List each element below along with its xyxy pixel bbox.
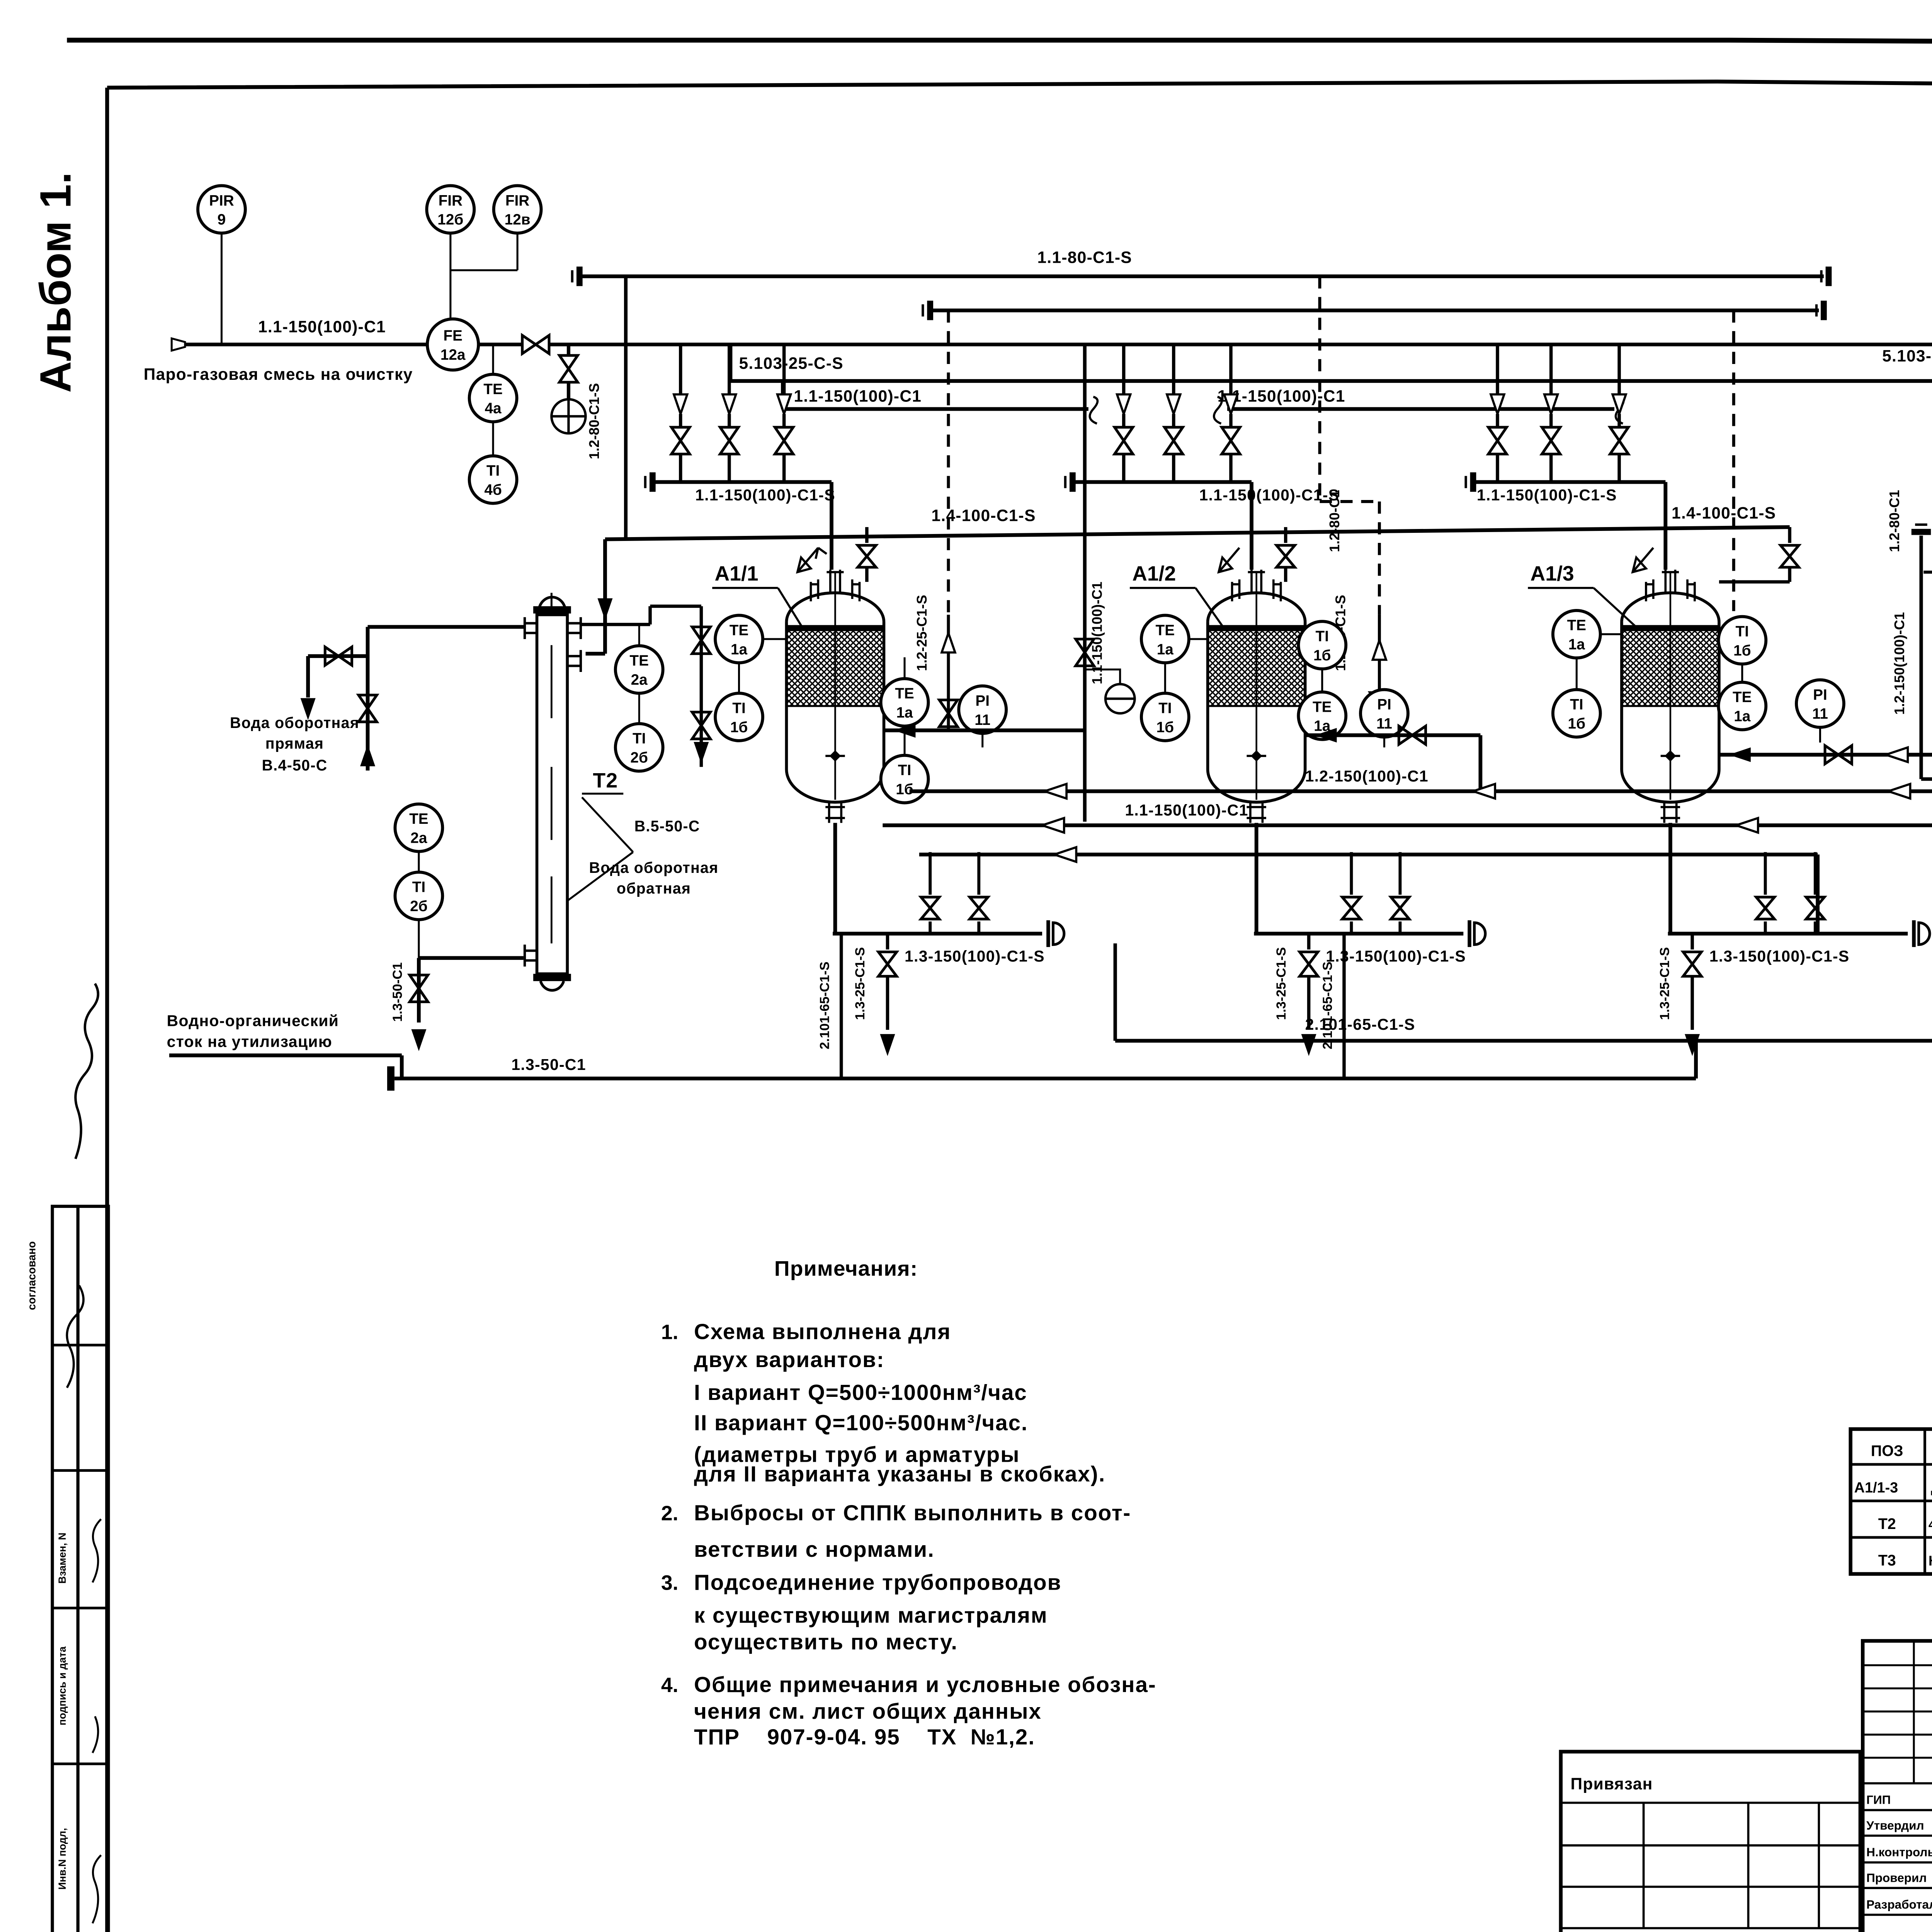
wire [784, 414, 785, 427]
svg-text:1.2-25-С1-S: 1.2-25-С1-S [914, 595, 930, 671]
svg-text:TE: TE [1733, 689, 1752, 706]
pipe (dashed) [1379, 502, 1380, 615]
svg-text:2.: 2. [661, 1502, 679, 1525]
wire [1351, 922, 1352, 934]
pipe 1.2-80-C1 riser (dashed) [1319, 276, 1320, 502]
valve [1277, 545, 1295, 567]
margin handwritten entry [92, 1519, 101, 1923]
svg-text:2.101-65-С1-S: 2.101-65-С1-S [818, 962, 832, 1049]
box Привязан [1561, 1752, 1860, 1932]
svg-text:Разработал: Разработал [1866, 1898, 1932, 1912]
svg-text:ветствии с нормами.: ветствии с нормами. [694, 1537, 935, 1562]
svg-text:400-ХКГ-1,6-М8-С/25Г-2-2-У-Н: 400-ХКГ-1,6-М8-С/25Г-2-2-У-Н [1929, 1517, 1932, 1532]
wire [1308, 978, 1310, 1030]
valve [1342, 897, 1361, 919]
svg-text:Привязан: Привязан [1571, 1775, 1653, 1793]
svg-text:А1/3: А1/3 [1531, 563, 1574, 585]
svg-text:9: 9 [218, 211, 226, 228]
svg-text:1.2-150(100)-С1: 1.2-150(100)-С1 [1891, 612, 1907, 715]
valve on riser x891 [1076, 639, 1094, 666]
wire [568, 382, 569, 399]
pipe drain header [1254, 933, 1463, 934]
wire vessel bottom drop [835, 823, 836, 934]
svg-text:сток на утилизацию: сток на утилизацию [167, 1032, 332, 1050]
instrument TI 1б [1718, 617, 1766, 664]
flow arrow [1886, 747, 1908, 762]
svg-text:2б: 2б [410, 898, 428, 915]
flow arrow [1167, 395, 1180, 414]
svg-text:Инв.N подл,: Инв.N подл, [56, 1828, 68, 1890]
wire [1230, 414, 1231, 427]
valve [970, 897, 988, 919]
svg-text:1.1-150(100)-С1-S: 1.1-150(100)-С1-S [1199, 486, 1340, 504]
svg-text:Водно-органический: Водно-органический [167, 1012, 339, 1030]
instrument TI 1б [881, 755, 929, 803]
pipe water-organic drain [169, 1055, 402, 1078]
wire [1285, 567, 1286, 582]
svg-text:II вариант Q=100÷500нм³/час.: II вариант Q=100÷500нм³/час. [694, 1411, 1028, 1435]
svg-text:обратная: обратная [617, 880, 691, 897]
instrument TE 2а [395, 804, 442, 852]
wire manifold drop [1551, 345, 1552, 395]
flow arrow [674, 395, 687, 414]
svg-text:TI: TI [1570, 696, 1583, 713]
svg-text:TE: TE [1156, 622, 1175, 639]
valve [1115, 427, 1133, 454]
wire [1230, 454, 1231, 482]
svg-text:А1/2: А1/2 [1132, 563, 1176, 585]
svg-text:1.2-80-С1: 1.2-80-С1 [1886, 490, 1902, 552]
pipe lower return header [919, 855, 1818, 934]
wire [887, 978, 888, 1030]
instrument TI 2б [395, 872, 442, 920]
instrument TI 1б [1298, 621, 1346, 669]
pipe end flange [1828, 267, 1830, 286]
valve [775, 427, 793, 454]
svg-text:Взамен, N: Взамен, N [56, 1532, 68, 1583]
pipe 1.1-150(100)-C1 feed (left) [185, 344, 429, 345]
valve [1756, 897, 1774, 919]
svg-text:Примечания:: Примечания: [774, 1257, 918, 1281]
capped end [1048, 920, 1049, 947]
svg-text:TE: TE [1313, 699, 1332, 715]
svg-text:TI: TI [1158, 700, 1172, 716]
instrument stems TE4a TI4b [493, 345, 493, 457]
svg-text:2а: 2а [410, 830, 427, 847]
svg-text:1.3-25-С1-S: 1.3-25-С1-S [1274, 947, 1289, 1020]
wire drop to T2 [586, 539, 605, 654]
node inlet reducer [172, 338, 185, 351]
flow arrow [1473, 784, 1495, 799]
stamp grid [1863, 1641, 1932, 1932]
pipe 1.2-25-C1-S regen drop [948, 615, 949, 730]
svg-text:Схема выполнена для: Схема выполнена для [694, 1320, 951, 1344]
relief valve SPPK A1/3 [1633, 548, 1653, 572]
instrument TE 2а [616, 646, 663, 693]
flow arrow [1054, 847, 1077, 862]
wire riser to header [1351, 852, 1352, 895]
pipe 1.1-150(100)-C1 (seg 1) [783, 381, 1088, 409]
wire vessel bottom drop [1670, 823, 1671, 934]
svg-text:Выбросы от СППК выполнить в со: Выбросы от СППК выполнить в соот- [694, 1501, 1131, 1526]
valve on water return 2 [692, 712, 710, 739]
svg-text:TE: TE [730, 622, 749, 639]
stems [1165, 639, 1207, 693]
svg-text:1б: 1б [1733, 642, 1751, 659]
svg-text:5.103-25-С-S: 5.103-25-С-S [739, 354, 844, 373]
flow arrow [881, 1035, 895, 1054]
valve [1806, 897, 1824, 919]
svg-text:11: 11 [1376, 715, 1392, 732]
leader line А1/1 [712, 588, 803, 629]
wire [729, 454, 730, 482]
wire drop from 1.4 header [1789, 527, 1790, 543]
instrument TE 1а [881, 679, 929, 726]
wire [866, 567, 867, 582]
wire [1719, 567, 1790, 582]
svg-text:12а: 12а [440, 347, 466, 363]
svg-text:TE: TE [1567, 617, 1587, 634]
svg-text:PI: PI [975, 693, 990, 709]
svg-text:1а: 1а [731, 641, 748, 658]
pipe T2 outlet jog [581, 606, 701, 624]
svg-text:TE: TE [895, 685, 914, 702]
flow arrow [1044, 784, 1066, 799]
svg-text:1.1-80-С1-S: 1.1-80-С1-S [1037, 248, 1132, 267]
svg-text:1.1-150(100)-С1: 1.1-150(100)-С1 [1125, 801, 1248, 819]
margin handwritten signature 2 [67, 1286, 83, 1388]
valve [1222, 427, 1240, 454]
valve [921, 897, 939, 919]
wire [1619, 414, 1620, 427]
border outer top line [67, 40, 1932, 45]
svg-text:I вариант Q=500÷1000нм³/час: I вариант Q=500÷1000нм³/час [694, 1381, 1027, 1405]
instrument PIR 9 [198, 185, 245, 233]
instrument FE 12а [427, 319, 478, 370]
wire drain drop [1692, 934, 1693, 949]
flow arrow [599, 599, 612, 618]
pipe header (second) [933, 310, 1819, 311]
pipe drain header [1668, 933, 1908, 934]
svg-text:1а: 1а [1734, 708, 1751, 725]
svg-text:1.4-100-С1-S: 1.4-100-С1-S [1672, 504, 1776, 522]
fitting (orifice circle) [1085, 670, 1134, 713]
flow arrow [1117, 395, 1131, 414]
svg-text:FIR: FIR [439, 192, 463, 209]
wire manifold drop [1619, 345, 1620, 395]
wire manifold drop [1230, 345, 1231, 395]
valve [1399, 726, 1425, 744]
svg-text:2а: 2а [631, 672, 648, 688]
margin block table [52, 1206, 108, 1932]
svg-text:TE: TE [409, 811, 429, 827]
svg-text:PI: PI [1813, 687, 1827, 703]
pipe manifold to A1/2 [1075, 482, 1252, 570]
wire [1692, 978, 1693, 1030]
stem PI11 [1820, 728, 1820, 743]
wire manifold drop [1173, 345, 1174, 395]
instrument TI 1б [1141, 693, 1189, 741]
relief valve SPPK A1/2 [1219, 548, 1240, 572]
svg-text:Т2: Т2 [1878, 1515, 1896, 1532]
valve [1165, 427, 1183, 454]
pipe A1/3 side outlet [1719, 755, 1932, 791]
svg-text:4а: 4а [485, 400, 502, 417]
svg-text:Вода оборотная: Вода оборотная [589, 859, 718, 876]
svg-text:2.101-65-С1-S: 2.101-65-С1-S [1320, 962, 1335, 1049]
svg-text:1а: 1а [1568, 636, 1585, 653]
svg-text:Альбом 1.: Альбом 1. [31, 172, 80, 393]
wire manifold drop [1497, 345, 1498, 395]
svg-text:TI: TI [1736, 623, 1749, 640]
heat exchanger T2 [525, 593, 581, 990]
valve [858, 545, 876, 567]
svg-text:для II варианта указаны в скоб: для II варианта указаны в скобках). [694, 1462, 1105, 1486]
pipe supply elbow [308, 627, 367, 656]
stems [1322, 670, 1323, 692]
svg-text:1.1-150(100)-С1-S: 1.1-150(100)-С1-S [695, 486, 835, 504]
pipe 1.2-150(100)-C1 return header [910, 791, 1932, 792]
svg-text:5.103-25-С-S: 5.103-25-С-S [1882, 347, 1932, 366]
absorber А1/1 [786, 570, 884, 823]
svg-text:2.101-65-С1-S: 2.101-65-С1-S [1305, 1015, 1415, 1033]
svg-text:осуществить по месту.: осуществить по месту. [694, 1630, 958, 1655]
svg-text:А1/1-3: А1/1-3 [1854, 1480, 1898, 1496]
pipe break [1616, 397, 1623, 423]
svg-text:11: 11 [1812, 706, 1828, 722]
svg-text:3.: 3. [661, 1571, 679, 1594]
pipe 1.2-150(100)-C1 riser [1921, 536, 1932, 779]
pipe regen drop [1379, 615, 1380, 735]
svg-text:1.3-50-С1: 1.3-50-С1 [511, 1056, 586, 1073]
valve [560, 355, 578, 382]
svg-text:2б: 2б [630, 750, 648, 766]
flow arrow [1544, 395, 1558, 414]
wire manifold drop [1123, 345, 1124, 395]
wire [1123, 454, 1124, 482]
wire drop from 1.4 header [866, 527, 867, 543]
svg-text:12в: 12в [505, 211, 531, 228]
svg-text:В.4-50-С: В.4-50-С [262, 757, 328, 774]
absorber А1/3 [1622, 570, 1719, 823]
svg-text:TI: TI [633, 730, 646, 747]
leader line T2 [567, 794, 633, 901]
svg-text:TI: TI [1316, 628, 1329, 645]
instrument stems TE2a TI2b [418, 852, 419, 958]
svg-text:1.4-100-С1-S: 1.4-100-С1-S [931, 506, 1036, 525]
instrument stem PIR9 [221, 234, 222, 345]
svg-text:TI: TI [898, 762, 911, 779]
valve on drain [410, 975, 428, 1002]
svg-text:прямая: прямая [265, 735, 324, 752]
flow arrow [1224, 395, 1238, 414]
stems [1577, 634, 1622, 689]
wire [978, 922, 980, 934]
valve on supply [359, 695, 377, 722]
equipment table text [1854, 1442, 1932, 1569]
instrument TE 1а [1141, 615, 1189, 663]
valve [1370, 693, 1388, 719]
instrument stems FIR12 [451, 234, 517, 320]
wire drain drop [1308, 934, 1310, 949]
svg-text:ПОЗ: ПОЗ [1871, 1442, 1903, 1459]
pipe break [1214, 397, 1222, 423]
svg-text:Н.контроль: Н.контроль [1866, 1845, 1932, 1859]
pipe 1.3-50-C1 bottom line [395, 1078, 1696, 1079]
svg-text:1.2-80-С1-S: 1.2-80-С1-S [586, 383, 602, 459]
capped end [1469, 920, 1470, 947]
svg-text:чения см. лист общих данных: чения см. лист общих данных [694, 1699, 1042, 1724]
svg-text:1б: 1б [1568, 715, 1586, 732]
svg-text:1б: 1б [1313, 647, 1331, 664]
wire manifold drop [729, 345, 730, 395]
wire drain drop [887, 934, 888, 949]
wire [680, 414, 681, 427]
wire [1551, 414, 1552, 427]
svg-text:FIR: FIR [505, 192, 529, 209]
manifold flange [651, 472, 653, 492]
pipe 1.2-80-C1 riser (dashed) [948, 310, 949, 615]
margin handwritten signature [75, 983, 98, 1159]
instrument PI 11 [1796, 680, 1844, 727]
wire [1497, 454, 1498, 482]
svg-text:В.5-50-С: В.5-50-С [634, 818, 700, 835]
stem PI11 [982, 734, 983, 748]
wire riser x916 [1115, 943, 1116, 1041]
flow arrow [894, 723, 916, 738]
svg-text:1.1-150(100)-C1: 1.1-150(100)-C1 [258, 318, 386, 336]
svg-text:1.3-25-С1-S: 1.3-25-С1-S [853, 947, 867, 1020]
wire branch [1923, 571, 1932, 573]
instrument TE 1а [715, 615, 763, 663]
svg-text:1б: 1б [1156, 719, 1174, 736]
wire drop from 1.4 header [1285, 527, 1286, 543]
svg-text:Проверил: Проверил [1866, 1871, 1927, 1884]
stems [1742, 665, 1743, 682]
valve on water return [692, 627, 710, 653]
wire [1123, 414, 1124, 427]
pipe T2 drain [419, 957, 524, 959]
instrument stems [639, 624, 639, 723]
pipe A1/2 side outlet [1305, 735, 1481, 791]
flow arrow up [1373, 640, 1386, 660]
valve [522, 335, 549, 354]
wire riser to header [930, 852, 931, 895]
svg-text:4.: 4. [661, 1674, 679, 1697]
svg-text:TE: TE [483, 381, 503, 398]
stems [739, 639, 787, 693]
flow arrow [1302, 1035, 1316, 1054]
instrument FIR 12в [494, 185, 541, 233]
flange [389, 1066, 392, 1091]
wire riser to header [1400, 852, 1401, 895]
flow arrow [777, 395, 791, 414]
svg-text:Утвердил: Утвердил [1866, 1818, 1924, 1832]
valve [1488, 427, 1507, 454]
svg-text:1.3-150(100)-С1-S: 1.3-150(100)-С1-S [1709, 947, 1850, 965]
pipe end flange [1823, 301, 1825, 320]
svg-text:1а: 1а [1157, 641, 1174, 658]
wire [930, 922, 931, 934]
wire [729, 414, 730, 427]
svg-text:согласовано: согласовано [26, 1241, 38, 1310]
svg-text:подпись и дата: подпись и дата [56, 1646, 68, 1725]
wire [1619, 454, 1620, 482]
flow arrow [412, 1030, 426, 1049]
drawing frame top edge [107, 82, 1932, 90]
svg-text:Т2: Т2 [593, 769, 618, 792]
svg-text:1.3-50-С1: 1.3-50-С1 [390, 962, 405, 1022]
drawing frame left edge [107, 88, 108, 1932]
svg-text:1б: 1б [730, 719, 748, 736]
flange cap [1912, 531, 1931, 533]
valve [325, 647, 352, 665]
pipe 2.101-65-C1-S steam header [1115, 1040, 1932, 1041]
instrument PI 11 [959, 686, 1006, 733]
pipe 2.101-65-C1-S relief drop [841, 934, 842, 1078]
svg-text:TI: TI [732, 700, 745, 716]
pipe start flange [578, 267, 580, 286]
pipe cooling water supply [368, 626, 525, 628]
capped end [1913, 920, 1915, 947]
pipe feed through FE [478, 344, 521, 345]
equipment table [1850, 1429, 1932, 1574]
fitting (circle-cross) [551, 399, 585, 433]
pipe manifold to A1/3 [1476, 482, 1666, 570]
absorber А1/2 [1208, 570, 1305, 823]
wire riser to header [1765, 852, 1766, 895]
valve [672, 427, 690, 454]
wire [308, 656, 309, 697]
flow arrow [301, 699, 315, 718]
flow arrow [1042, 818, 1064, 833]
flow arrow [1888, 784, 1910, 799]
leader line А1/2 [1130, 588, 1225, 629]
valve [1299, 952, 1318, 976]
wire [1173, 414, 1174, 427]
svg-text:PIR: PIR [209, 192, 234, 209]
stamp grid text [1866, 1793, 1932, 1912]
pipe 1.1-150(100)-C1 feed header [550, 344, 1932, 345]
pipe 1.1-150(100)-C1 return header [883, 825, 1932, 826]
pipe drain header [833, 933, 1042, 934]
wire [1173, 454, 1174, 482]
wire riser x467 [568, 345, 569, 355]
flow arrow [1612, 395, 1626, 414]
instrument TE 4а [469, 374, 517, 422]
valve [1610, 427, 1628, 454]
svg-text:Вода оборотная: Вода оборотная [230, 714, 359, 731]
valve [1542, 427, 1560, 454]
wire riser to header [1815, 852, 1816, 895]
pipe manifold to A1/1 [655, 482, 832, 570]
wire manifold drop [784, 345, 785, 395]
pipe 1.1-150(100)-C1 riser [1084, 345, 1085, 822]
flow arrow up [942, 633, 955, 652]
wire riser to header [978, 852, 980, 895]
wire vessel bottom drop [1256, 823, 1257, 934]
flow arrow [1729, 747, 1751, 762]
instrument PI 11 [1361, 690, 1408, 737]
pipe 1.1-80-C1-S header [582, 276, 1824, 277]
flow arrow [1736, 818, 1758, 833]
svg-text:КП-4Б-СК-01УЗА: КП-4Б-СК-01УЗА [1929, 1553, 1932, 1568]
wire [784, 454, 785, 482]
valve [1825, 746, 1852, 764]
valve [1781, 545, 1799, 567]
svg-text:1.3-150(100)-С1-S: 1.3-150(100)-С1-S [1326, 947, 1466, 965]
svg-text:4б: 4б [484, 482, 502, 498]
